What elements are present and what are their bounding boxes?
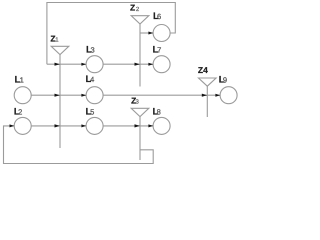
wire row C right segment	[103, 94, 220, 96]
label L9	[219, 75, 227, 86]
lamp L1	[14, 87, 31, 104]
arrow row D into L5	[81, 124, 86, 127]
svg-text:5: 5	[90, 108, 94, 117]
wire row D right segment	[103, 125, 153, 127]
arrow row C into L4	[81, 94, 86, 97]
svg-text:2: 2	[136, 6, 140, 13]
lamp L3	[86, 56, 103, 73]
zener Z3	[131, 108, 149, 160]
wire L2 feedback loop	[4, 126, 154, 164]
arrow row B before Z2	[135, 63, 140, 66]
arrow row B into L7	[148, 63, 153, 66]
arrow row A into L6	[148, 32, 153, 35]
label L8	[153, 107, 161, 118]
lamp L8	[153, 117, 170, 134]
label L6	[153, 11, 161, 22]
label L2	[14, 106, 22, 117]
lamp L6	[153, 25, 170, 42]
label L5	[86, 107, 95, 118]
arrow into L2	[10, 124, 15, 127]
lamp L4	[86, 87, 103, 104]
svg-text:1: 1	[55, 36, 59, 43]
wire row B left segment	[47, 63, 86, 65]
svg-text:3: 3	[136, 99, 140, 106]
arrow row C before Z1	[55, 94, 60, 97]
svg-text:3: 3	[91, 45, 95, 54]
wire top loop	[47, 3, 175, 65]
lamp L2	[14, 117, 31, 134]
wire row B right segment	[103, 63, 153, 65]
lamp L9	[220, 87, 237, 104]
arrow row D before Z3	[135, 124, 140, 127]
zener Z1	[51, 46, 69, 148]
wire row D left segment	[31, 125, 86, 127]
label L7	[153, 44, 162, 55]
svg-text:1: 1	[20, 76, 24, 85]
label Z1	[50, 33, 59, 43]
svg-text:7: 7	[157, 45, 161, 54]
label L4	[86, 74, 95, 85]
arrow row C into L9	[215, 94, 220, 97]
zener Z2	[131, 16, 149, 87]
zener Z4	[199, 78, 217, 117]
svg-text:2: 2	[18, 107, 22, 116]
svg-text:8: 8	[157, 108, 161, 117]
svg-text:6: 6	[157, 12, 161, 21]
label L3	[86, 44, 95, 55]
svg-text:9: 9	[223, 76, 227, 85]
arrow row D before Z1	[55, 124, 60, 127]
wire row A segment	[140, 32, 153, 34]
svg-text:Z: Z	[130, 3, 135, 13]
lamp L5	[86, 117, 103, 134]
label Z2	[130, 3, 140, 13]
label Z3	[131, 96, 139, 106]
arrow row D into L8	[148, 124, 153, 127]
wire row C left segment	[31, 94, 86, 96]
arrow row C before Z4	[202, 94, 207, 97]
svg-text:Z4: Z4	[198, 65, 208, 75]
label L1	[15, 75, 24, 86]
arrow row B into L3	[81, 63, 86, 66]
svg-text:4: 4	[90, 75, 94, 84]
arrow row B before Z1	[55, 63, 60, 66]
lamp L7	[153, 56, 170, 73]
